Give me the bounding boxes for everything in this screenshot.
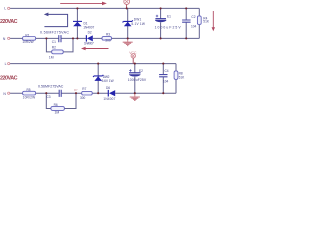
svg-text:R3: R3: [106, 33, 110, 37]
svg-text:R2: R2: [52, 46, 56, 50]
svg-text:300: 300: [80, 96, 86, 100]
wire R2 parallel loop: [46, 38, 73, 52]
wire DW1 branch: [127, 8, 129, 38]
wire C2 branch: [185, 8, 187, 38]
wire D1 branch: [76, 8, 78, 38]
svg-text:D2: D2: [88, 30, 92, 34]
power stub row1: [126, 5, 128, 9]
capacitor C3: [59, 90, 61, 97]
svg-text:0.56MF275VAC: 0.56MF275VAC: [40, 30, 69, 34]
svg-text:51K: 51K: [203, 20, 210, 24]
svg-text:L: L: [5, 62, 7, 66]
svg-text:R7: R7: [74, 88, 78, 92]
svg-text:R6: R6: [54, 103, 58, 107]
wire C4 branch: [162, 64, 164, 94]
diode D6: [107, 90, 109, 97]
resistor R3: [102, 37, 112, 41]
wire E2 branch: [134, 64, 136, 94]
resistor R2: [52, 50, 64, 54]
terminal L row2: [8, 63, 10, 65]
capacitor C4: [159, 75, 167, 77]
svg-text:220VAC: 220VAC: [0, 76, 18, 82]
electrolytic E2: [129, 72, 141, 74]
current arrow blue loop row1: [44, 14, 67, 26]
svg-text:5.1V 1W: 5.1V 1W: [131, 22, 145, 26]
wire right column row2: [175, 64, 177, 94]
resistor R4: [197, 16, 201, 25]
wire L top rail row1: [10, 7, 200, 9]
power port circle row1: [124, 0, 130, 5]
svg-text:C1: C1: [52, 40, 56, 44]
ground row2: [134, 93, 136, 96]
resistor R8: [174, 71, 178, 80]
wire lower rail row1 mid: [61, 37, 86, 39]
svg-text:104: 104: [163, 79, 169, 83]
junction dots row2 top rail: [97, 63, 99, 65]
svg-text:5.6V 1W: 5.6V 1W: [102, 79, 114, 83]
wire DW2 branch: [97, 64, 99, 94]
svg-text:R5: R5: [27, 88, 31, 92]
svg-text:300: 300: [105, 39, 111, 43]
resistor R6: [51, 107, 65, 111]
svg-text:E2: E2: [139, 69, 143, 73]
junction dots row2 lower rail: [45, 92, 47, 94]
svg-text:E1: E1: [167, 15, 171, 19]
wire lower rail row1 right: [93, 37, 199, 39]
svg-text:C4: C4: [165, 69, 169, 73]
wire lower rail row2 right: [115, 92, 176, 94]
svg-text:L: L: [4, 7, 6, 11]
current arrow red left row1: [85, 48, 109, 50]
zener DW2: [93, 75, 103, 77]
junction dots row1 lower rail: [45, 37, 47, 39]
svg-text:10R/2W: 10R/2W: [23, 96, 35, 100]
svg-text:1M: 1M: [55, 110, 60, 114]
svg-text:1N4007: 1N4007: [103, 97, 115, 101]
svg-text:1000uF25V: 1000uF25V: [128, 78, 147, 82]
svg-text:D6: D6: [106, 86, 110, 90]
terminal L row1: [8, 7, 10, 9]
svg-text:104: 104: [191, 24, 197, 28]
diode D1: [73, 20, 82, 22]
wire L top rail row2: [10, 63, 176, 65]
wire lower rail row2 mid: [61, 92, 108, 94]
terminal N row2: [8, 92, 10, 94]
svg-text:C3: C3: [47, 95, 51, 99]
diode D2: [85, 35, 87, 41]
zener DW1: [123, 20, 133, 22]
wire R6 parallel loop: [46, 93, 76, 108]
current arrow red right row1: [60, 2, 102, 4]
svg-text:0.56MF275VAC: 0.56MF275VAC: [38, 85, 64, 89]
junction dots row1 top rail: [76, 7, 78, 9]
electrolytic E1: [155, 18, 166, 20]
wire N lower rail row2 left: [10, 92, 59, 94]
svg-text:R1: R1: [25, 33, 29, 37]
wire E1 branch: [160, 8, 162, 38]
svg-text:1N4007: 1N4007: [84, 41, 94, 45]
svg-text:220VAC: 220VAC: [0, 19, 18, 25]
svg-text:R7: R7: [82, 87, 86, 91]
svg-text:D1: D1: [84, 21, 88, 25]
wire right column row1: [198, 8, 200, 38]
svg-text:1N4007: 1N4007: [83, 26, 94, 30]
ground row1: [127, 38, 129, 42]
svg-text:1M: 1M: [49, 56, 54, 60]
svg-text:C2: C2: [191, 15, 195, 19]
wire N lower rail row1 left: [10, 37, 59, 39]
terminal N row1: [8, 37, 10, 39]
resistor R7: [82, 91, 93, 95]
resistor R1: [23, 37, 36, 41]
current arrow red down row1: [212, 11, 214, 28]
svg-text:10R/2W: 10R/2W: [22, 40, 33, 44]
capacitor C1: [59, 35, 61, 42]
svg-text:51K: 51K: [179, 75, 186, 79]
capacitor C2: [182, 20, 191, 22]
resistor R5: [23, 91, 36, 95]
